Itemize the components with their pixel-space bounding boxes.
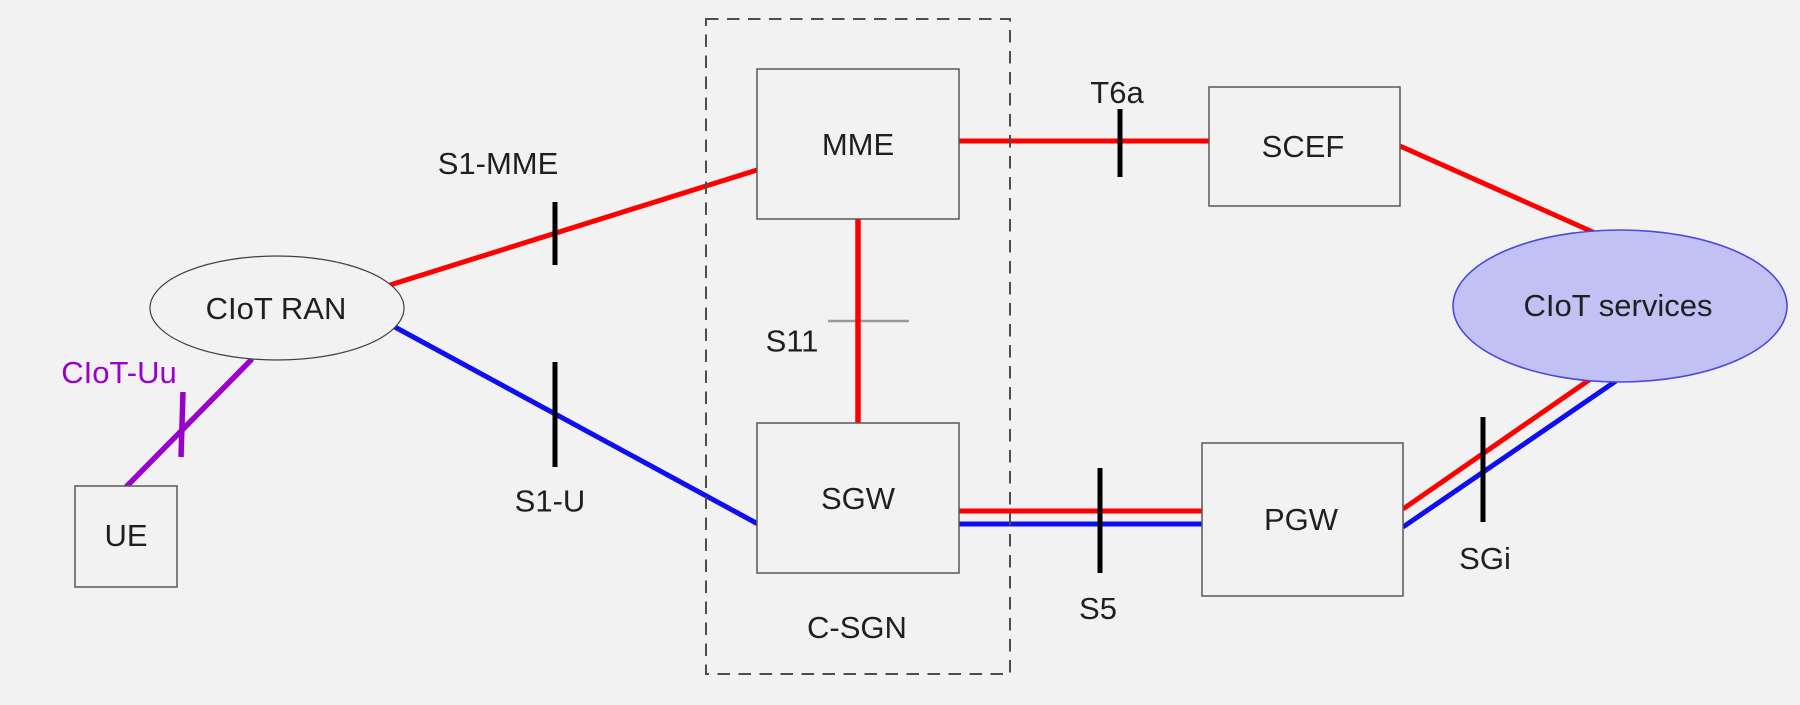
- svg-text:S1-MME: S1-MME: [438, 146, 559, 181]
- wire S11 (red, MME to SGW): [855, 219, 861, 423]
- svg-text:UE: UE: [104, 518, 147, 553]
- node PGW box: [1202, 443, 1403, 596]
- wire S1-U (blue, CIoT RAN to SGW): [393, 326, 758, 524]
- wire S5 blue (SGW to PGW): [959, 522, 1202, 527]
- wire SCEF to CIoT services (red): [1400, 146, 1595, 233]
- svg-text:S5: S5: [1079, 591, 1117, 626]
- tick CIoT-Uu (purple): [181, 392, 183, 457]
- tick SGi: [1481, 417, 1486, 522]
- wire SGi red (PGW to CIoT services): [1403, 378, 1592, 509]
- svg-text:CIoT-Uu: CIoT-Uu: [61, 355, 176, 390]
- wire CIoT-Uu (purple, UE to CIoT RAN): [126, 359, 252, 487]
- wire T6a (red, MME to SCEF): [959, 139, 1209, 144]
- node MME box: [757, 69, 959, 219]
- wire SGi blue (PGW to CIoT services): [1403, 381, 1616, 527]
- node UE box: [75, 486, 177, 587]
- node SGW box: [757, 423, 959, 573]
- svg-text:SCEF: SCEF: [1262, 129, 1345, 164]
- wire S1-MME (red, CIoT RAN to MME): [390, 170, 757, 285]
- svg-text:T6a: T6a: [1090, 75, 1144, 110]
- node CIoT services ellipse: [1453, 230, 1787, 382]
- svg-text:C-SGN: C-SGN: [807, 610, 907, 645]
- C-SGN dashed container: [706, 19, 1010, 674]
- svg-text:CIoT services: CIoT services: [1524, 288, 1713, 323]
- svg-text:PGW: PGW: [1264, 502, 1339, 537]
- svg-text:SGi: SGi: [1459, 541, 1511, 576]
- svg-text:S11: S11: [766, 324, 819, 359]
- tick S5: [1098, 468, 1103, 573]
- tick T6a: [1118, 109, 1123, 177]
- node SCEF box: [1209, 87, 1400, 206]
- wire S5 red (SGW to PGW): [959, 509, 1202, 514]
- svg-text:SGW: SGW: [821, 481, 896, 516]
- svg-text:MME: MME: [822, 127, 894, 162]
- svg-text:CIoT RAN: CIoT RAN: [206, 291, 347, 326]
- svg-text:S1-U: S1-U: [515, 484, 586, 519]
- tick S11 (gray horizontal): [828, 320, 909, 323]
- tick S1-MME: [553, 202, 558, 265]
- tick S1-U: [553, 362, 558, 467]
- node CIoT RAN ellipse: [150, 256, 404, 360]
